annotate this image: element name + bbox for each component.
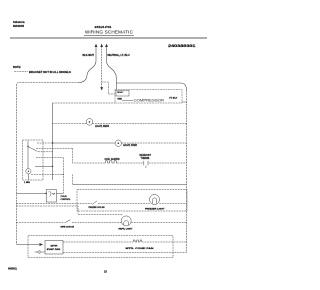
svg-text:CONTROL: CONTROL (61, 199, 72, 201)
svg-text:240389301: 240389301 (168, 44, 196, 48)
svg-text:LIGHT, FRZR: LIGHT, FRZR (123, 145, 137, 147)
svg-text:10: 10 (104, 270, 108, 274)
svg-text:RED: RED (118, 99, 123, 101)
svg-text:MTR: MTR (51, 245, 59, 247)
svg-text:EVAP FAN: EVAP FAN (47, 248, 61, 251)
svg-text:MTR. COND FAN: MTR. COND FAN (126, 247, 155, 250)
svg-text:WIRING SCHEMATIC: WIRING SCHEMATIC (85, 30, 134, 35)
svg-text:COLD: COLD (61, 196, 68, 198)
svg-text:VT. BLK: VT. BLK (169, 98, 178, 100)
svg-text:LIGHT, REFR: LIGHT, REFR (95, 126, 110, 128)
svg-text:NEUTRAL, LT. BLU: NEUTRAL, LT. BLU (108, 54, 130, 57)
svg-text:REFR DOOR SW: REFR DOOR SW (61, 226, 75, 228)
svg-text:5995439785: 5995439785 (13, 25, 25, 28)
svg-text:23113-P01: 23113-P01 (95, 25, 112, 29)
svg-text:FREEZER LIGHT: FREEZER LIGHT (145, 209, 165, 211)
svg-text:06/01: 06/01 (8, 267, 18, 271)
svg-text:COMPRESSOR: COMPRESSOR (134, 99, 165, 103)
svg-text:Publication No.: Publication No. (13, 21, 25, 24)
svg-text:BLK-WHT: BLK-WHT (83, 55, 95, 57)
svg-text:REFR. LIGHT: REFR. LIGHT (119, 229, 134, 231)
svg-text:THERM.: THERM. (141, 157, 150, 160)
svg-text:FREEZER DOOR SW: FREEZER DOOR SW (89, 207, 106, 209)
svg-text:BRACKET NOT IN ALL MODELS: BRACKET NOT IN ALL MODELS (29, 70, 71, 74)
svg-text:GRN/Y: GRN/Y (117, 92, 124, 94)
svg-text:NOTE:: NOTE: (13, 65, 21, 69)
svg-text:1 MIN: 1 MIN (24, 182, 30, 184)
